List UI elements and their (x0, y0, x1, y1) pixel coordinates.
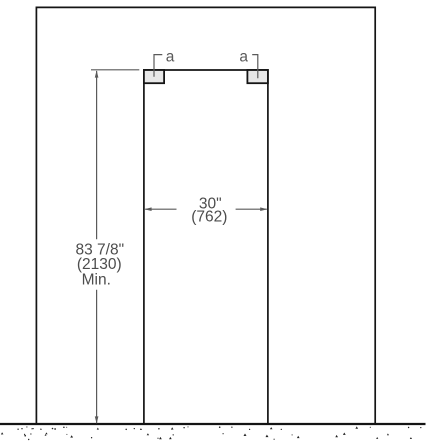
svg-text:(2130): (2130) (77, 256, 122, 273)
svg-text:a: a (166, 48, 175, 65)
svg-text:(762): (762) (191, 208, 227, 225)
svg-text:Min.: Min. (82, 272, 111, 289)
svg-text:a: a (239, 48, 248, 65)
